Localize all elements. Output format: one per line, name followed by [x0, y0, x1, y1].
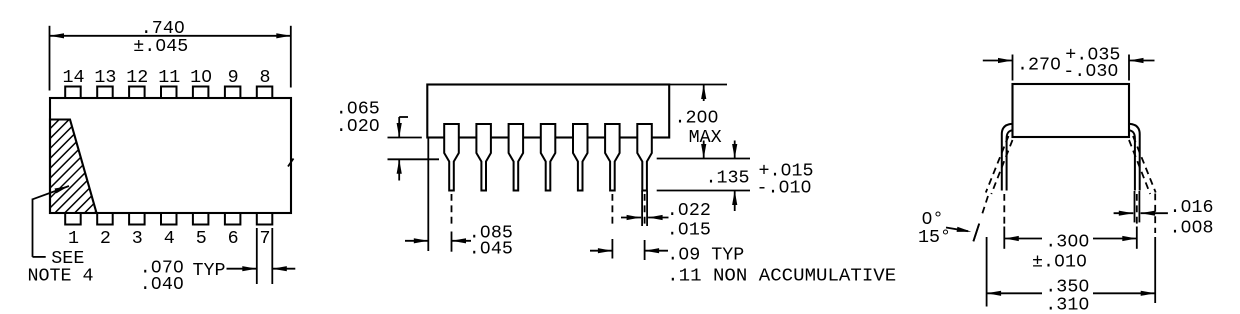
dimension text .270 +.035/-.030: [1017, 45, 1120, 82]
dimension text .11 NON ACCUMULATIVE: [667, 265, 896, 286]
svg-text:.015: .015: [667, 219, 711, 240]
dimension .070/.040 TYP extension lines: [257, 228, 273, 284]
dimension .740 +/-.045 line: [50, 33, 291, 38]
dimension text .016/.008: [1170, 197, 1214, 238]
pin 8 (top view): [257, 87, 273, 99]
hatched pin-1 index mark: [0, 99, 218, 219]
label SEE NOTE 4: [28, 248, 94, 287]
dimension text .300 +/-.010: [1032, 231, 1089, 272]
pin 1 (top view): [65, 213, 81, 225]
svg-text:1: 1: [68, 228, 79, 249]
svg-text:NOTE 4: NOTE 4: [28, 266, 94, 287]
dimension text .09 TYP: [667, 244, 744, 265]
pin 13 (top view): [97, 87, 113, 99]
svg-text:13: 13: [94, 67, 116, 88]
lead 2 (side view): [476, 124, 491, 191]
dimension .135 arrows: [732, 141, 737, 212]
svg-text:9: 9: [228, 67, 239, 88]
dimension .065/.020 arrows: [397, 117, 408, 181]
reference line body bottom left: [388, 137, 422, 139]
pin number 5: [196, 228, 207, 249]
svg-text:5: 5: [196, 228, 207, 249]
svg-text:15°: 15°: [918, 227, 951, 248]
pin 9 (top view): [225, 87, 241, 99]
svg-text:.09 TYP: .09 TYP: [667, 244, 744, 265]
dimension .270 extension lines: [1013, 55, 1130, 81]
pin 11 (top view): [161, 87, 177, 99]
pin number 6: [228, 228, 239, 249]
svg-text:14: 14: [62, 67, 84, 88]
lead 7 (side view): [637, 124, 652, 191]
svg-text:.135: .135: [706, 168, 750, 189]
pin number 14: [62, 67, 84, 88]
pin 6 (top view): [225, 213, 241, 225]
pin number 8: [259, 67, 270, 88]
dimension .350 extension lines: [987, 194, 1156, 307]
pin number 7: [259, 228, 270, 249]
svg-text:7: 7: [259, 228, 270, 249]
pin 12 (top view): [129, 87, 145, 99]
leader arrow to index mark: [33, 186, 70, 257]
reference line seating plane: [657, 158, 750, 160]
dimension .300 line: [1004, 236, 1137, 241]
dimension text .070/.040 TYP: [140, 258, 226, 295]
pin number 9: [228, 67, 239, 88]
svg-text:.022: .022: [667, 200, 711, 221]
dimension text .350/.310: [1045, 276, 1089, 314]
body top edge extension: [669, 84, 727, 86]
IC body (top view): [50, 98, 291, 213]
mold kink mark on right edge: [288, 159, 294, 167]
svg-text:12: 12: [126, 67, 148, 88]
pin number 1: [68, 228, 79, 249]
lead 1 (side view): [444, 124, 459, 191]
lead 7 side extension lines: [642, 191, 647, 227]
reference line lead shoulder: [388, 158, 440, 160]
pin 5 (top view): [193, 213, 209, 225]
svg-text:.016: .016: [1170, 197, 1214, 218]
dimension text .200 MAX: [675, 107, 722, 148]
pin 14 (top view): [65, 87, 81, 99]
lead 1 centerline: [451, 194, 453, 252]
right lead centerline: [1136, 194, 1138, 249]
svg-text:10: 10: [190, 67, 212, 88]
svg-text:2: 2: [100, 228, 111, 249]
pin 7 (top view): [257, 213, 273, 225]
pin number 2: [100, 228, 111, 249]
svg-text:.11 NON ACCUMULATIVE: .11 NON ACCUMULATIVE: [667, 265, 896, 286]
pin 2 (top view): [97, 213, 113, 225]
pin number 4: [164, 228, 175, 249]
svg-text:TYP: TYP: [193, 260, 226, 281]
dimension .200 MAX arrows: [701, 85, 706, 159]
lead 3 (side view): [509, 124, 523, 191]
angle leader 0/15 deg: [946, 224, 979, 242]
body left edge extension: [427, 138, 429, 252]
angle text 0/15 deg: [918, 209, 951, 248]
svg-text:4: 4: [164, 228, 175, 249]
pin number 12: [126, 67, 148, 88]
lead 6 centerline: [611, 194, 613, 259]
right lead side extension lines: [1135, 191, 1140, 222]
svg-text:.008: .008: [1170, 217, 1214, 238]
svg-text:.045: .045: [469, 239, 513, 260]
dimension .085/.045 arrows: [405, 238, 471, 243]
dimension text .085/.045: [469, 222, 513, 259]
dimension .740 +/-.045 extension lines: [50, 26, 291, 91]
left lead centerline: [1003, 194, 1005, 249]
lead 6 (side view): [605, 124, 620, 191]
dimension text .065/.020: [336, 99, 380, 137]
pin number 11: [158, 67, 180, 88]
pin 3 (top view): [129, 213, 145, 225]
IC body (end view): [1013, 84, 1130, 137]
svg-text:11: 11: [158, 67, 180, 88]
lead 7 centerline: [644, 194, 646, 260]
dimension .350 line: [987, 291, 1156, 296]
lead 5 (side view): [573, 124, 588, 191]
dimension .070/.040 TYP arrows: [227, 266, 296, 271]
dimension text .740: [141, 18, 185, 39]
left lead splayed (dashed): [973, 136, 1012, 241]
dimension text .135 +.015/-.010: [706, 161, 814, 199]
pin number 3: [132, 228, 143, 249]
reference line lead tip: [657, 190, 750, 192]
svg-text:8: 8: [259, 67, 270, 88]
right lead (end view): [1129, 124, 1140, 191]
dimension text .022/.015: [667, 200, 711, 240]
right lead splayed (dashed): [1129, 136, 1156, 194]
svg-text:MAX: MAX: [689, 127, 722, 148]
svg-text:6: 6: [228, 228, 239, 249]
dimension .270 arrows: [983, 58, 1155, 63]
lead 4 (side view): [541, 124, 556, 191]
dimension .016/.008 arrows: [1114, 211, 1168, 216]
dimension .022/.015 arrows: [621, 215, 669, 220]
zero glyph dot masks: [154, 24, 1199, 305]
pin number 13: [94, 67, 116, 88]
left lead (end view): [1002, 124, 1013, 191]
dimension text +/-.045: [133, 36, 188, 57]
pin 10 (top view): [193, 87, 209, 99]
pin 4 (top view): [161, 213, 177, 225]
dimension .09 arrows: [590, 248, 668, 253]
pin number 10: [190, 67, 212, 88]
IC body (side view): [427, 85, 669, 138]
svg-text:3: 3: [132, 228, 143, 249]
